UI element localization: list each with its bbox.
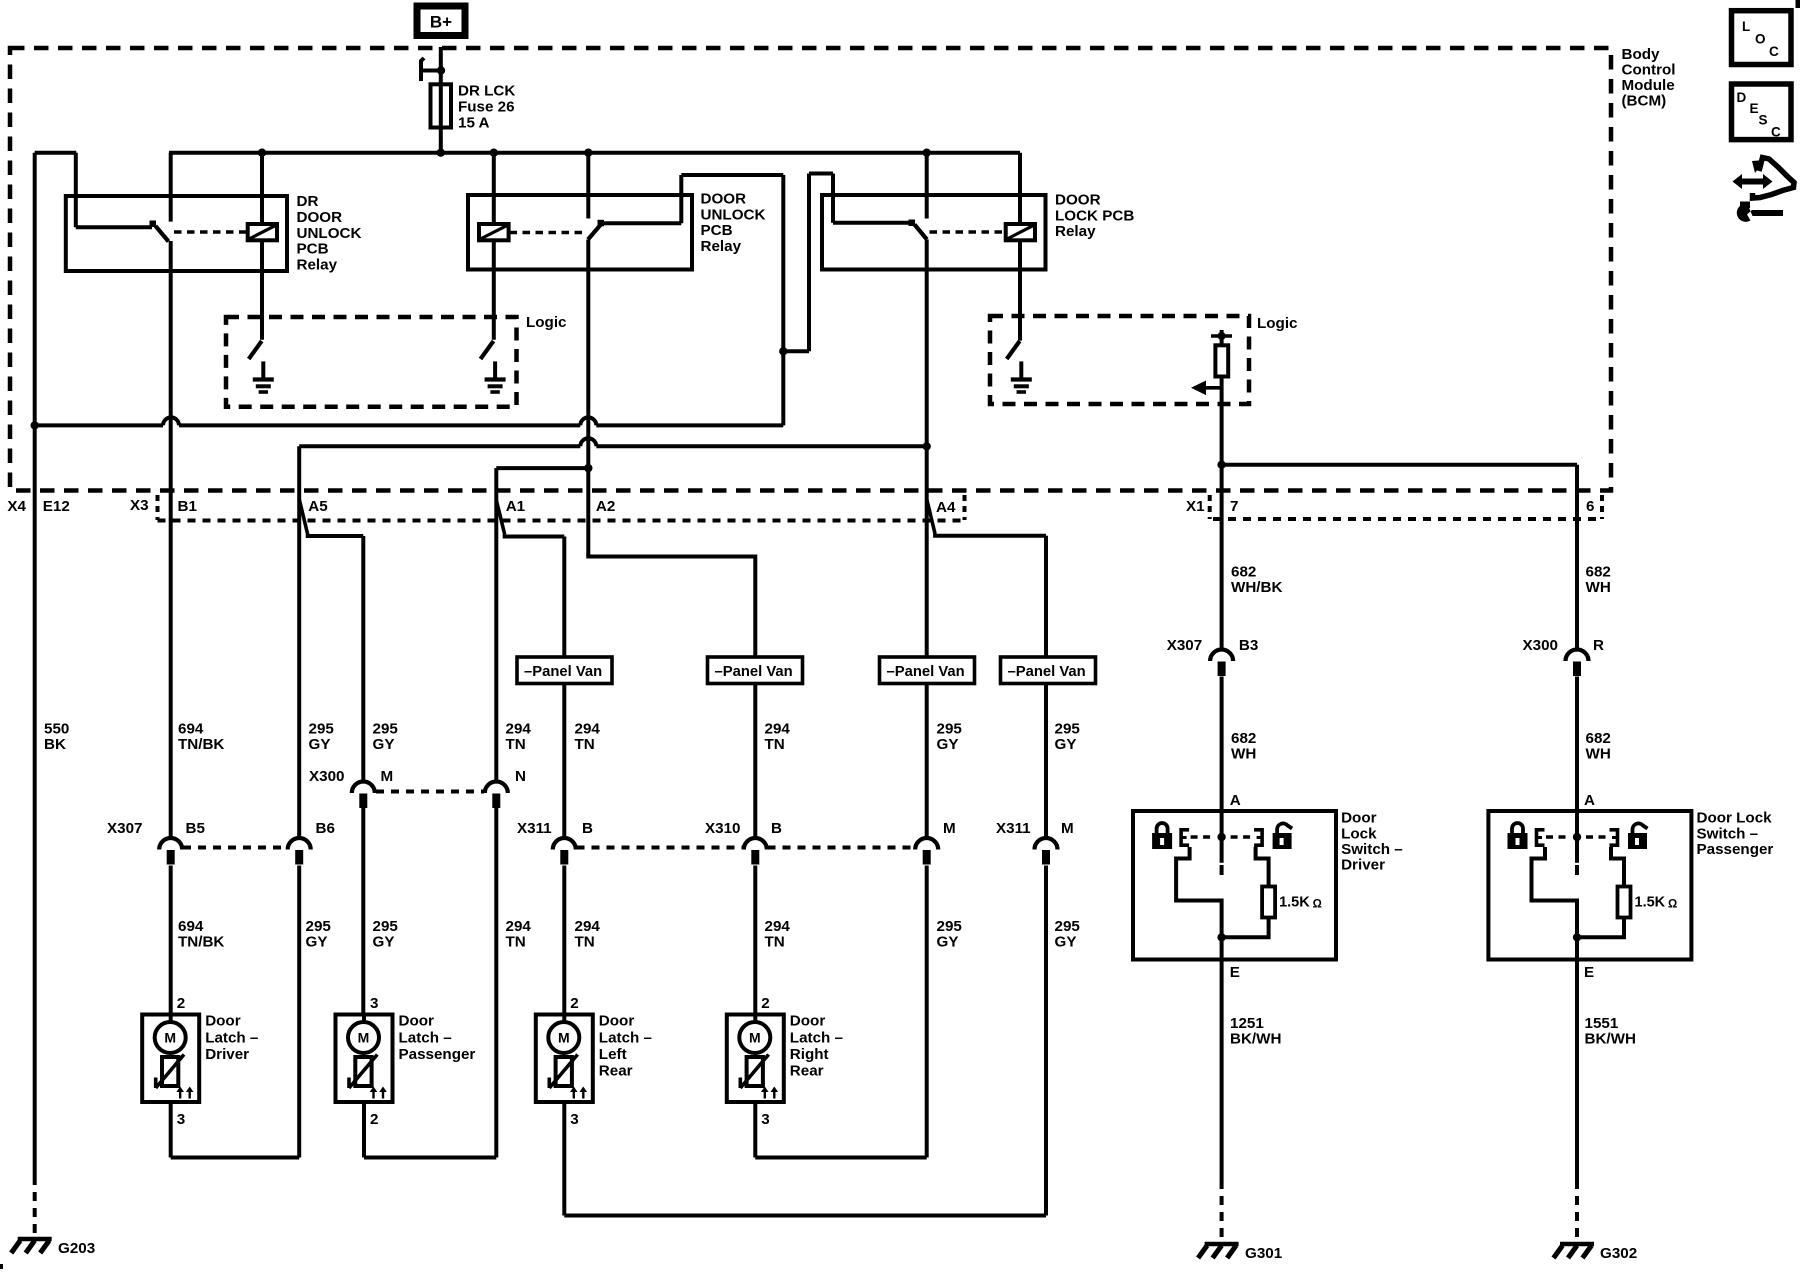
svg-text:–Panel Van: –Panel Van — [1008, 664, 1086, 680]
svg-text:DOOR: DOOR — [297, 209, 343, 226]
svg-text:BK: BK — [44, 736, 66, 753]
svg-text:X1: X1 — [1186, 498, 1205, 515]
svg-text:GY: GY — [1055, 934, 1077, 951]
svg-text:7: 7 — [1230, 498, 1238, 515]
svg-text:295: 295 — [309, 721, 335, 738]
svg-text:–Panel Van: –Panel Van — [524, 664, 602, 680]
svg-text:Right: Right — [790, 1046, 829, 1063]
svg-text:Passenger: Passenger — [1697, 841, 1774, 858]
svg-text:–Panel Van: –Panel Van — [887, 664, 965, 680]
svg-text:Relay: Relay — [701, 238, 742, 255]
svg-text:DOOR: DOOR — [1055, 192, 1101, 209]
svg-text:Body: Body — [1622, 46, 1661, 63]
svg-text:Latch –: Latch – — [205, 1029, 258, 1046]
svg-text:B: B — [582, 820, 593, 837]
svg-text:C: C — [1769, 44, 1779, 59]
svg-text:Door: Door — [205, 1013, 241, 1030]
svg-text:295: 295 — [306, 918, 332, 935]
svg-text:GY: GY — [373, 934, 395, 951]
svg-text:2: 2 — [570, 995, 578, 1012]
svg-text:682: 682 — [1231, 564, 1256, 581]
svg-text:E: E — [1230, 964, 1240, 981]
svg-text:LOCK PCB: LOCK PCB — [1055, 207, 1134, 224]
svg-text:TN/BK: TN/BK — [178, 736, 224, 753]
svg-text:GY: GY — [373, 736, 395, 753]
svg-text:682: 682 — [1231, 730, 1256, 747]
svg-text:M: M — [164, 1030, 176, 1046]
svg-text:X310: X310 — [705, 820, 740, 837]
svg-text:M: M — [943, 820, 956, 837]
svg-text:Driver: Driver — [205, 1046, 249, 1063]
svg-text:Logic: Logic — [526, 314, 567, 331]
svg-text:M: M — [381, 768, 394, 785]
svg-text:TN: TN — [765, 736, 785, 753]
svg-text:L: L — [1742, 19, 1750, 34]
svg-text:X3: X3 — [130, 497, 149, 514]
svg-text:E: E — [1584, 964, 1594, 981]
svg-text:PCB: PCB — [701, 222, 733, 239]
svg-text:M: M — [358, 1030, 370, 1046]
svg-text:682: 682 — [1586, 730, 1611, 747]
svg-text:295: 295 — [937, 721, 963, 738]
svg-text:TN/BK: TN/BK — [178, 934, 224, 951]
svg-text:B5: B5 — [186, 820, 206, 837]
svg-text:S: S — [1759, 113, 1768, 128]
svg-text:TN: TN — [765, 934, 785, 951]
svg-text:–Panel Van: –Panel Van — [715, 664, 793, 680]
svg-text:Logic: Logic — [1257, 315, 1298, 332]
svg-text:Latch –: Latch – — [790, 1029, 843, 1046]
svg-text:Control: Control — [1622, 62, 1676, 79]
svg-text:B+: B+ — [430, 13, 452, 32]
svg-text:M: M — [1061, 820, 1074, 837]
svg-text:B6: B6 — [316, 820, 335, 837]
svg-text:B1: B1 — [178, 498, 198, 515]
svg-text:A1: A1 — [506, 498, 526, 515]
svg-text:M: M — [558, 1030, 570, 1046]
svg-text:WH: WH — [1586, 746, 1611, 763]
svg-text:TN: TN — [506, 736, 526, 753]
svg-text:Passenger: Passenger — [399, 1046, 476, 1063]
svg-text:E: E — [1750, 101, 1759, 116]
svg-text:TN: TN — [506, 934, 526, 951]
svg-text:1251: 1251 — [1230, 1015, 1264, 1032]
svg-text:WH: WH — [1586, 579, 1611, 596]
svg-text:Door: Door — [399, 1013, 435, 1030]
svg-text:550: 550 — [44, 721, 69, 738]
svg-text:G302: G302 — [1600, 1245, 1637, 1262]
svg-text:Ω: Ω — [1668, 899, 1677, 911]
svg-text:295: 295 — [1055, 918, 1081, 935]
svg-text:TN: TN — [575, 934, 595, 951]
svg-text:1.5K: 1.5K — [1635, 895, 1666, 911]
svg-text:2: 2 — [177, 995, 185, 1012]
svg-text:Door: Door — [790, 1013, 826, 1030]
svg-text:N: N — [515, 768, 526, 785]
svg-text:Fuse 26: Fuse 26 — [458, 99, 515, 116]
svg-text:Left: Left — [599, 1046, 627, 1063]
svg-text:294: 294 — [575, 721, 601, 738]
svg-text:294: 294 — [506, 721, 532, 738]
svg-text:Door: Door — [1341, 810, 1377, 827]
svg-text:PCB: PCB — [297, 241, 329, 258]
svg-text:X307: X307 — [107, 820, 142, 837]
svg-text:2: 2 — [761, 995, 769, 1012]
svg-text:DR LCK: DR LCK — [458, 83, 515, 100]
svg-text:3: 3 — [370, 995, 378, 1012]
svg-text:295: 295 — [937, 918, 963, 935]
svg-text:GY: GY — [309, 736, 331, 753]
svg-text:Relay: Relay — [297, 256, 338, 273]
svg-text:1.5K: 1.5K — [1279, 895, 1310, 911]
svg-text:B3: B3 — [1239, 637, 1258, 654]
svg-text:3: 3 — [761, 1111, 769, 1128]
svg-text:Rear: Rear — [599, 1063, 633, 1080]
svg-text:C: C — [1771, 125, 1781, 140]
svg-text:GY: GY — [937, 736, 959, 753]
svg-text:BK/WH: BK/WH — [1230, 1031, 1281, 1048]
svg-text:Driver: Driver — [1341, 857, 1385, 874]
svg-text:X300: X300 — [1523, 637, 1558, 654]
svg-text:X311: X311 — [996, 820, 1031, 837]
svg-text:694: 694 — [178, 721, 204, 738]
svg-text:E12: E12 — [43, 498, 70, 515]
svg-text:Relay: Relay — [1055, 223, 1096, 240]
svg-text:TN: TN — [575, 736, 595, 753]
svg-text:G301: G301 — [1245, 1245, 1283, 1262]
svg-text:682: 682 — [1586, 564, 1611, 581]
svg-text:X307: X307 — [1167, 637, 1202, 654]
svg-text:UNLOCK: UNLOCK — [701, 206, 766, 223]
svg-text:294: 294 — [765, 918, 791, 935]
svg-text:Ω: Ω — [1313, 899, 1322, 911]
svg-text:DR: DR — [297, 193, 319, 210]
svg-text:WH: WH — [1231, 746, 1256, 763]
svg-text:G203: G203 — [58, 1240, 95, 1257]
svg-text:A2: A2 — [596, 498, 615, 515]
svg-text:1551: 1551 — [1585, 1015, 1619, 1032]
svg-text:(BCM): (BCM) — [1622, 93, 1667, 110]
svg-text:Latch –: Latch – — [599, 1029, 652, 1046]
svg-text:X311: X311 — [517, 820, 552, 837]
svg-text:Module: Module — [1622, 77, 1675, 94]
svg-text:B: B — [771, 820, 782, 837]
svg-text:Rear: Rear — [790, 1063, 824, 1080]
svg-text:6: 6 — [1586, 498, 1594, 515]
svg-text:Door: Door — [599, 1013, 635, 1030]
svg-text:GY: GY — [937, 934, 959, 951]
svg-text:X300: X300 — [309, 768, 344, 785]
svg-text:694: 694 — [178, 918, 204, 935]
svg-text:295: 295 — [373, 721, 399, 738]
svg-text:3: 3 — [570, 1111, 578, 1128]
svg-text:O: O — [1755, 32, 1766, 47]
svg-text:295: 295 — [1055, 721, 1081, 738]
svg-text:GY: GY — [1055, 736, 1077, 753]
svg-text:D: D — [1737, 90, 1747, 105]
svg-text:Switch –: Switch – — [1697, 825, 1759, 842]
svg-text:Latch –: Latch – — [399, 1029, 452, 1046]
svg-text:Lock: Lock — [1341, 825, 1377, 842]
svg-text:A: A — [1584, 792, 1595, 809]
svg-text:294: 294 — [506, 918, 532, 935]
svg-text:3: 3 — [177, 1111, 185, 1128]
svg-text:GY: GY — [306, 934, 328, 951]
svg-text:BK/WH: BK/WH — [1585, 1031, 1636, 1048]
svg-text:2: 2 — [370, 1111, 378, 1128]
svg-text:WH/BK: WH/BK — [1231, 579, 1282, 596]
svg-text:15 A: 15 A — [458, 114, 490, 131]
svg-text:A4: A4 — [936, 499, 956, 516]
svg-text:M: M — [749, 1030, 761, 1046]
svg-text:294: 294 — [765, 721, 791, 738]
svg-text:294: 294 — [575, 918, 601, 935]
svg-text:X4: X4 — [7, 498, 26, 515]
svg-text:295: 295 — [373, 918, 399, 935]
svg-text:UNLOCK: UNLOCK — [297, 225, 362, 242]
svg-text:A: A — [1230, 792, 1241, 809]
svg-text:Door Lock: Door Lock — [1697, 810, 1773, 827]
svg-text:DOOR: DOOR — [701, 191, 747, 208]
svg-text:Switch –: Switch – — [1341, 841, 1403, 858]
svg-text:A5: A5 — [308, 498, 328, 515]
svg-text:R: R — [1593, 637, 1604, 654]
